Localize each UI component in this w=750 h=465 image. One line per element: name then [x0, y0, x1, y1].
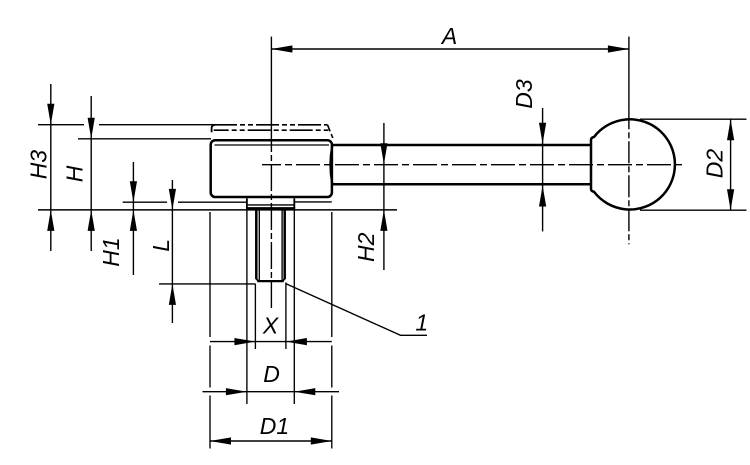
dimension H2 line: [383, 123, 385, 270]
D1 extension line right: [331, 212, 333, 449]
dimension A left arrowhead: [271, 45, 292, 52]
H bottom arrowhead: [88, 210, 95, 231]
dimension D2 line: [730, 119, 732, 210]
dimension A line: [271, 48, 629, 50]
svg-text:A: A: [440, 23, 457, 49]
cap top phantom line: [214, 124, 328, 126]
H1 top arrowhead: [130, 181, 137, 202]
D right arrowhead: [294, 388, 315, 395]
svg-text:D: D: [263, 361, 280, 387]
D2 bottom arrowhead: [727, 189, 734, 210]
collar bottom edge: [246, 207, 295, 209]
H1 extension line: [123, 201, 247, 203]
X left arrowhead: [234, 338, 255, 345]
base plane extension line: [38, 209, 397, 211]
X right arrowhead: [286, 338, 307, 345]
D left arrowhead: [226, 388, 247, 395]
ball knob: [591, 119, 675, 209]
stud bottom chamfer right: [283, 279, 285, 282]
dimension H1 upper line: [132, 162, 134, 275]
D1 extension line left: [209, 212, 211, 449]
D3 bottom arrowhead: [539, 186, 546, 207]
svg-text:D2: D2: [702, 149, 728, 179]
H2 bottom arrowhead: [380, 210, 387, 231]
dimension H3 upper line: [50, 84, 52, 251]
body bottom ring line: [294, 201, 332, 203]
body top chamfer line: [215, 144, 330, 146]
handle rod top edge: [332, 144, 591, 147]
svg-text:D3: D3: [511, 79, 537, 109]
dimension D1 line: [210, 440, 332, 442]
D2 extension line bottom: [640, 209, 747, 211]
vertical centerline stud axis: [270, 37, 272, 125]
vertical centerline ball axis: [628, 37, 630, 112]
dimension D3 upper line: [542, 108, 544, 231]
collar right edge: [293, 198, 295, 208]
horizontal centerline rod axis: [262, 164, 683, 166]
body hub outline: [211, 140, 332, 197]
collar chamfer line: [248, 204, 294, 206]
rod root arc: [330, 146, 332, 183]
svg-text:H: H: [62, 165, 88, 182]
D1 left arrowhead: [210, 437, 231, 444]
D extension line left: [246, 211, 248, 405]
svg-text:H1: H1: [98, 237, 124, 266]
D2 extension line top: [640, 118, 747, 120]
stud major right: [283, 208, 286, 279]
dimension D line: [203, 391, 340, 393]
svg-text:H3: H3: [25, 150, 51, 180]
stud bottom chamfer left: [256, 279, 258, 282]
H top arrowhead: [88, 118, 95, 139]
stud thread minor left: [258, 208, 260, 280]
svg-text:X: X: [262, 313, 280, 339]
L top arrowhead: [169, 189, 176, 210]
handle rod bottom edge: [332, 183, 591, 186]
stud thread minor right: [281, 208, 283, 280]
dimension A right arrowhead: [608, 45, 629, 52]
L bottom arrowhead: [169, 284, 176, 305]
H2 top arrowhead: [380, 143, 387, 164]
dimension L upper line: [171, 180, 173, 323]
svg-text:1: 1: [415, 310, 428, 336]
collar left edge: [246, 198, 248, 208]
X extension line right: [285, 283, 287, 350]
H1 bottom arrowhead: [130, 210, 137, 231]
D3 top arrowhead: [539, 123, 546, 144]
cap serration phantom line: [214, 129, 329, 131]
D2 top arrowhead: [727, 119, 734, 140]
svg-text:H2: H2: [353, 232, 379, 262]
dimension X line: [210, 341, 332, 343]
cap left corner: [212, 125, 215, 132]
H extension line top: [78, 138, 211, 140]
dimension H upper line: [90, 96, 92, 251]
D extension line right: [293, 211, 295, 405]
stud major left: [255, 208, 258, 279]
H3 extension line top: [38, 124, 214, 126]
H3 top arrowhead: [47, 104, 54, 125]
L extension line bottom: [159, 283, 256, 285]
cap right chamfer dashed: [328, 125, 333, 138]
X extension line left: [254, 284, 256, 349]
H3 bottom arrowhead: [47, 210, 54, 231]
svg-text:D1: D1: [260, 413, 289, 439]
stud bottom edge: [257, 280, 283, 282]
leader line for item 1: [286, 284, 428, 336]
svg-text:L: L: [148, 239, 174, 252]
D1 right arrowhead: [311, 437, 332, 444]
